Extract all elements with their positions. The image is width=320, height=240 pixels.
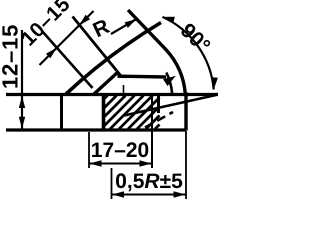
arrowhead 17-20 left <box>90 160 102 166</box>
label 12-15 <box>2 25 18 87</box>
wire scarf top line <box>124 95 216 116</box>
wire hatch right boundary bar <box>157 95 160 113</box>
label 0.5R+-5 <box>116 173 182 191</box>
wire outer bend: straight B3, arc, right edge <box>128 10 186 131</box>
arrowhead arc bottom <box>212 77 218 89</box>
wire ext line 17-20 right <box>151 96 153 168</box>
arrowhead 10-15 upper (pointing down-left) <box>79 15 90 26</box>
arrowhead arc top <box>163 17 175 23</box>
wire plate bottom edge <box>6 128 186 131</box>
hatched cross-section <box>105 96 160 130</box>
wire dim line 0.5R <box>112 194 187 196</box>
arrowhead 17-20 right <box>140 160 152 166</box>
wire R leader line <box>111 19 137 34</box>
arrowhead 0.5R right <box>174 191 186 197</box>
wire scarf hidden line (dashed) <box>145 112 173 128</box>
arrowhead R leader <box>125 19 137 28</box>
label R <box>92 20 110 37</box>
wire dim line 10-15 diagonal <box>40 11 94 65</box>
wire plate divider hatch-left <box>102 93 106 131</box>
wire band upper edge (long sweep) <box>66 23 161 95</box>
wire leader line horizontal <box>118 74 167 78</box>
label 90 deg <box>181 24 210 47</box>
arrowhead 12-15 down <box>19 117 25 129</box>
arrowhead 10-15 lower (pointing up-right) <box>46 48 57 59</box>
wire ext line 17-20 left <box>88 132 90 168</box>
wire dim line 17-20 <box>89 163 152 165</box>
wire ext line 0.5R right <box>185 131 187 199</box>
wire dim line 12-15 vertical <box>21 30 23 129</box>
arrowhead 0.5R left <box>112 191 124 197</box>
arrowhead leader (fat, pointing up-right) <box>163 76 176 86</box>
wire band end face line B2 <box>73 17 122 77</box>
wire plate top edge <box>6 93 218 96</box>
wire ext line 0.5R left <box>111 168 113 199</box>
label 10-15 <box>22 0 69 46</box>
wire inner bend arc <box>166 73 172 95</box>
wire 90-degree angle arc <box>163 17 214 90</box>
wire small vertical tick <box>123 85 125 93</box>
label 17-20 <box>92 142 148 157</box>
wire band start line B1 <box>42 31 93 88</box>
arrowhead 12-15 up <box>19 96 25 108</box>
wire band lower edge <box>94 72 118 94</box>
wire plate divider left <box>60 94 63 131</box>
